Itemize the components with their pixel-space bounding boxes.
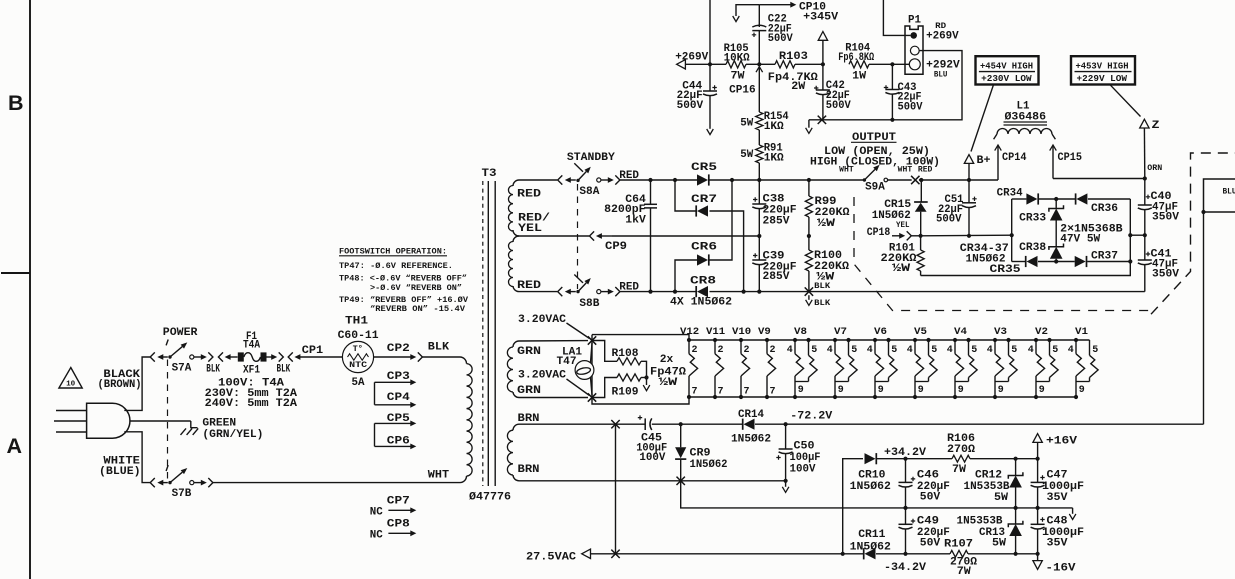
- svg-text:T4A: T4A: [243, 339, 260, 351]
- zener CR13: [1015, 508, 1017, 524]
- callout line box2 to Z: [1110, 85, 1141, 117]
- switch S7B: [150, 478, 155, 487]
- svg-text:-72.2V: -72.2V: [790, 411, 832, 423]
- mid rail to diode box: [921, 234, 1012, 237]
- connector fuse to CP1: [267, 356, 272, 358]
- connector CP4 with bracket: [374, 382, 376, 405]
- capacitor C43: [890, 62, 894, 66]
- svg-text:9: 9: [1079, 385, 1085, 396]
- -16V rail: [1016, 553, 1038, 555]
- junction X WHT RED splice: [911, 176, 919, 184]
- svg-text:NTC: NTC: [349, 360, 367, 370]
- svg-text:1N5Ø62: 1N5Ø62: [731, 434, 771, 446]
- transformer T3 primary winding: [467, 364, 473, 476]
- svg-text:9: 9: [918, 385, 924, 396]
- svg-text:S8B: S8B: [579, 298, 599, 310]
- svg-text:FOOTSWITCH OPERATION:: FOOTSWITCH OPERATION:: [339, 246, 447, 256]
- svg-text:350V: 350V: [1152, 269, 1179, 281]
- svg-text:R103: R103: [779, 51, 808, 63]
- svg-text:(BLUE): (BLUE): [99, 466, 141, 478]
- svg-text:5: 5: [971, 345, 977, 356]
- svg-text:C47: C47: [1047, 469, 1068, 481]
- svg-text:4: 4: [947, 345, 953, 356]
- svg-text:S7A: S7A: [172, 362, 192, 374]
- T3 HV secondary winding upper: [513, 180, 519, 186]
- capacitor C50: [785, 424, 787, 449]
- wire from above into +269V rail: [709, 0, 711, 64]
- wire diode box to C40 C41 node: [1130, 234, 1145, 236]
- svg-text:BRN: BRN: [518, 464, 540, 476]
- wire CP10: [759, 4, 791, 6]
- resistor R100: [808, 236, 810, 250]
- diode CR8 on bottom rail: [651, 291, 698, 293]
- switch S8B standby: [558, 287, 563, 296]
- wire CP15 to ORN node: [1053, 178, 1145, 180]
- svg-text:+345V: +345V: [803, 11, 838, 23]
- svg-text:R107: R107: [944, 539, 973, 551]
- connector S7A to fuse: [194, 356, 201, 358]
- svg-text:+34.2V: +34.2V: [884, 447, 926, 459]
- diode box right edge: [1129, 199, 1131, 262]
- svg-text:CR7: CR7: [691, 194, 717, 206]
- svg-text:C49: C49: [917, 516, 939, 528]
- svg-text:C48: C48: [1047, 516, 1068, 528]
- connector CP9: [590, 231, 595, 240]
- T3 HV secondary winding lower: [513, 236, 519, 242]
- svg-text:T°: T°: [353, 344, 363, 354]
- svg-text:1KΩ: 1KΩ: [764, 152, 784, 164]
- zener CR12: [1015, 459, 1017, 476]
- wire heater bottom tap: [519, 397, 588, 399]
- thermistor TH1: [342, 341, 373, 372]
- node CR5 cathode to rails: [759, 179, 809, 181]
- svg-text:-34.2V: -34.2V: [884, 562, 926, 574]
- voltage box +453V HIGH +229V LOW: [1071, 56, 1135, 84]
- svg-text:BLU: BLU: [1223, 189, 1235, 197]
- wire P1 pin 3: [892, 63, 909, 65]
- wire HV bottom tap: [519, 291, 557, 293]
- tube V2 heater: [1034, 338, 1038, 342]
- junction X heater bottom: [588, 393, 596, 401]
- warning triangle note 10: [59, 368, 82, 389]
- svg-text:CP1: CP1: [302, 345, 324, 357]
- gang dashed line S9A to boundary: [854, 197, 1151, 311]
- zener CR33: [1055, 199, 1057, 209]
- wire plug hot to S7A: [124, 357, 150, 410]
- svg-text:S9A: S9A: [865, 181, 885, 193]
- svg-text:CP3: CP3: [387, 371, 410, 383]
- svg-text:4: 4: [827, 345, 833, 356]
- svg-text:10KΩ: 10KΩ: [724, 53, 750, 65]
- diode CR10: [865, 453, 876, 464]
- svg-text:1N5Ø62: 1N5Ø62: [850, 481, 891, 493]
- svg-text:285V: 285V: [763, 216, 790, 228]
- svg-text:CR10: CR10: [858, 469, 885, 481]
- svg-text:100V: 100V: [639, 452, 665, 464]
- capacitor C22 column: [757, 62, 761, 66]
- svg-text:TH1: TH1: [345, 315, 368, 327]
- svg-text:½W: ½W: [817, 218, 835, 230]
- connector CP2: [410, 354, 416, 360]
- heater top rail: [689, 339, 1090, 341]
- diode box top rail: [1012, 198, 1027, 200]
- capacitor C39: [758, 236, 760, 260]
- P1 pin 2: [910, 46, 919, 55]
- svg-text:CR36: CR36: [1091, 203, 1118, 215]
- bias rail -72.2V: [519, 423, 645, 425]
- svg-text:S8A: S8A: [579, 186, 599, 198]
- svg-text:240V: 5mm T2A: 240V: 5mm T2A: [205, 398, 298, 410]
- plug prong 2: [54, 420, 87, 422]
- svg-text:5A: 5A: [352, 377, 365, 389]
- capacitor C42: [822, 64, 824, 90]
- svg-text:500V: 500V: [936, 214, 962, 226]
- wire rail to CP14: [969, 179, 998, 181]
- resistor R103: [759, 63, 775, 65]
- switch S8A standby: [558, 175, 563, 184]
- svg-text:WHT: WHT: [898, 167, 913, 175]
- diode box bottom rail: [1012, 261, 1027, 263]
- capacitor C38: [757, 178, 761, 182]
- diode CR34: [1026, 193, 1037, 204]
- capacitor C40: [1144, 179, 1146, 206]
- wire S8A to node: [620, 179, 650, 181]
- svg-text:27.5VAC: 27.5VAC: [526, 551, 576, 563]
- svg-text:7: 7: [744, 386, 750, 397]
- svg-text:+269V: +269V: [675, 52, 708, 64]
- svg-text:NC: NC: [370, 507, 383, 519]
- switch S9A: [863, 178, 866, 181]
- svg-text:GREEN: GREEN: [202, 417, 236, 429]
- svg-text:V4: V4: [954, 326, 967, 338]
- svg-text:WHT: WHT: [839, 167, 854, 175]
- svg-text:+16V: +16V: [1046, 435, 1077, 447]
- svg-text:BLU: BLU: [934, 72, 948, 80]
- tube V8 heater: [793, 338, 797, 342]
- svg-text:7W: 7W: [957, 566, 971, 578]
- svg-text:7W: 7W: [731, 71, 745, 83]
- wire TH1 to CP2: [374, 356, 411, 358]
- wire from above to P1 pin 1: [883, 0, 910, 35]
- svg-text:7: 7: [718, 386, 724, 397]
- resistor R91: [756, 145, 763, 163]
- svg-text:5: 5: [931, 345, 937, 356]
- junction X below C42: [818, 116, 826, 124]
- wire HV center tap: [519, 235, 589, 237]
- svg-text:47V 5W: 47V 5W: [1060, 233, 1100, 245]
- resistor R108: [592, 341, 617, 362]
- diode CR11: [843, 553, 863, 555]
- junction X R100 BLK: [805, 287, 813, 295]
- svg-text:A: A: [7, 434, 23, 458]
- svg-text:1N5353B: 1N5353B: [964, 481, 1010, 493]
- svg-text:>-Ø.6V “REVERB ON”: >-Ø.6V “REVERB ON”: [370, 283, 462, 293]
- pilot lamp box: [592, 335, 689, 404]
- svg-text:(GRN/YEL): (GRN/YEL): [202, 429, 263, 441]
- svg-text:50V: 50V: [920, 537, 941, 549]
- svg-text:CP8: CP8: [387, 519, 410, 531]
- svg-text:V2: V2: [1035, 326, 1048, 338]
- T3 core: [482, 181, 484, 486]
- wire CP9 to C38 column: [612, 235, 759, 237]
- svg-text:CR38: CR38: [1019, 242, 1046, 254]
- diode box left edge: [1011, 199, 1013, 262]
- svg-text:500V: 500V: [898, 102, 923, 114]
- svg-text:STANDBY: STANDBY: [567, 152, 615, 164]
- capacitor C64: [650, 180, 652, 204]
- svg-text:CP14: CP14: [1002, 152, 1027, 164]
- capacitor C48: [1037, 508, 1039, 524]
- svg-text:9: 9: [958, 385, 964, 396]
- wire BLK off-page arrow: [808, 295, 810, 300]
- svg-text:V3: V3: [994, 326, 1007, 338]
- svg-text:+454V HIGH: +454V HIGH: [980, 61, 1033, 71]
- svg-text:C50: C50: [794, 440, 815, 452]
- wire C45 to CR14: [681, 423, 742, 425]
- svg-text:BLK: BLK: [814, 300, 830, 308]
- svg-text:5: 5: [851, 345, 857, 356]
- wire plug neutral to S7B: [124, 432, 150, 483]
- svg-text:4: 4: [867, 345, 873, 356]
- svg-text:5: 5: [1092, 345, 1098, 356]
- svg-text:7: 7: [770, 386, 776, 397]
- capacitor C45: [644, 418, 646, 430]
- svg-text:4X 1N5Ø62: 4X 1N5Ø62: [670, 297, 732, 309]
- svg-text:2: 2: [744, 345, 750, 356]
- tube V11 heater: [713, 338, 717, 342]
- svg-text:CP9: CP9: [605, 241, 627, 253]
- svg-text:285V: 285V: [763, 271, 790, 283]
- svg-text:V7: V7: [834, 326, 847, 338]
- svg-text:GRN: GRN: [517, 385, 541, 397]
- svg-text:CR6: CR6: [691, 242, 717, 254]
- svg-text:V10: V10: [732, 326, 751, 338]
- svg-text:C46: C46: [917, 470, 939, 482]
- svg-text:CP18: CP18: [867, 227, 891, 239]
- svg-text:BLK: BLK: [206, 363, 220, 375]
- svg-text:4: 4: [907, 345, 913, 356]
- svg-text:1KΩ: 1KΩ: [764, 121, 784, 133]
- svg-text:CP2: CP2: [387, 343, 410, 355]
- svg-text:R109: R109: [612, 386, 639, 398]
- svg-text:RED: RED: [517, 189, 541, 201]
- wire stub with down arrow at C22 top: [736, 5, 759, 16]
- heater bottom rail: [689, 396, 1076, 398]
- capacitor C47: [1037, 459, 1039, 483]
- svg-text:-16V: -16V: [1046, 562, 1076, 574]
- svg-text:+453V HIGH: +453V HIGH: [1076, 61, 1129, 71]
- svg-text:2: 2: [692, 345, 698, 356]
- svg-text:+269V: +269V: [926, 31, 959, 43]
- arrow end of zero rail: [1072, 508, 1074, 514]
- svg-text:4: 4: [987, 345, 993, 356]
- triangle +16V: [1033, 434, 1042, 443]
- svg-text:½W: ½W: [816, 272, 834, 284]
- svg-text:YEL: YEL: [518, 223, 542, 235]
- zero volt rail: [906, 507, 1073, 509]
- svg-text:1000µF: 1000µF: [1042, 481, 1084, 493]
- svg-text:RED: RED: [918, 167, 933, 175]
- svg-text:5W: 5W: [992, 537, 1006, 549]
- plug prong 1: [56, 410, 87, 412]
- diode CR14: [744, 419, 755, 430]
- wire CR9 to zero-volt rail: [681, 481, 906, 508]
- svg-text:100V: 100V: [790, 463, 816, 475]
- svg-text:5W: 5W: [994, 492, 1008, 504]
- svg-text:BLK: BLK: [814, 283, 830, 291]
- svg-text:2: 2: [718, 345, 724, 356]
- svg-text:WHT: WHT: [428, 469, 449, 481]
- +16V rail dots: [1014, 457, 1018, 461]
- svg-text:3.20VAC: 3.20VAC: [518, 370, 566, 382]
- svg-text:V6: V6: [874, 326, 887, 338]
- bias winding bottom rail: [519, 480, 786, 482]
- diode CR37: [1056, 261, 1075, 263]
- svg-text:5: 5: [1052, 345, 1058, 356]
- svg-text:T3: T3: [482, 168, 497, 180]
- svg-text:½W: ½W: [659, 377, 678, 389]
- T3 bias winding BRN: [513, 424, 519, 430]
- svg-text:35V: 35V: [1047, 492, 1068, 504]
- diode CR35: [1027, 256, 1038, 267]
- svg-text:9: 9: [1039, 385, 1045, 396]
- chassis ground symbol: [181, 421, 199, 435]
- svg-text:V12: V12: [680, 326, 699, 338]
- svg-text:350V: 350V: [1152, 212, 1179, 224]
- svg-text:5: 5: [891, 345, 897, 356]
- wire heater top tap: [519, 340, 588, 342]
- diode CR9: [680, 424, 682, 447]
- svg-text:7: 7: [692, 386, 698, 397]
- svg-text:+230V LOW: +230V LOW: [981, 74, 1032, 84]
- svg-text:CP15: CP15: [1058, 152, 1083, 164]
- svg-text:XF1: XF1: [243, 364, 260, 376]
- wire C42/C43 common with down arrow: [809, 119, 893, 121]
- svg-text:2x: 2x: [660, 354, 674, 366]
- tube V4 heater: [953, 338, 957, 342]
- wire BLU box down to -72V rail: [1203, 212, 1205, 424]
- svg-text:V8: V8: [794, 326, 807, 338]
- svg-text:P1: P1: [908, 14, 921, 26]
- section boundary dashed right: [1151, 153, 1235, 314]
- svg-text:1N5353B: 1N5353B: [957, 516, 1003, 528]
- svg-text:BRN: BRN: [518, 413, 540, 425]
- svg-text:+229V LOW: +229V LOW: [1077, 74, 1128, 84]
- svg-text:TP47: -Ø.6V REFERENCE.: TP47: -Ø.6V REFERENCE.: [339, 261, 453, 271]
- arrow CP14: [995, 145, 1002, 151]
- arrow CP16: [756, 67, 763, 73]
- callout line box1 to B+: [971, 85, 994, 152]
- wire HV top tap: [519, 179, 557, 181]
- svg-text:270Ω: 270Ω: [947, 444, 975, 456]
- svg-text:CR5: CR5: [691, 162, 717, 174]
- resistor R107: [906, 553, 951, 555]
- junction X heater top: [588, 336, 596, 344]
- svg-text:(BROWN): (BROWN): [98, 379, 142, 391]
- junction X 27.5VAC: [611, 550, 619, 558]
- svg-text:1N5Ø62: 1N5Ø62: [690, 459, 728, 471]
- svg-text:9: 9: [838, 385, 844, 396]
- svg-text:1kV: 1kV: [625, 214, 646, 226]
- svg-text:CP16: CP16: [729, 85, 756, 97]
- T3 heater winding: [513, 341, 519, 347]
- svg-text:5: 5: [1011, 345, 1017, 356]
- svg-text:V9: V9: [758, 326, 771, 338]
- tube V7 heater: [833, 338, 837, 342]
- wire S8B to node: [620, 291, 650, 293]
- triangle Z: [1140, 119, 1149, 128]
- wire up to CR10: [843, 459, 863, 554]
- svg-text:2: 2: [770, 345, 776, 356]
- wire plug earth GREEN: [130, 420, 191, 422]
- svg-text:Ø47776: Ø47776: [469, 492, 511, 504]
- diode CR7 branch: [673, 178, 677, 182]
- svg-text:1N5Ø62: 1N5Ø62: [850, 541, 891, 553]
- svg-text:1N5Ø62: 1N5Ø62: [872, 210, 911, 222]
- svg-text:POWER: POWER: [163, 327, 198, 339]
- svg-text:3.20VAC: 3.20VAC: [518, 314, 566, 326]
- svg-text:9: 9: [798, 385, 804, 396]
- svg-text:100µF: 100µF: [790, 452, 821, 464]
- arrow CP15: [1050, 145, 1057, 151]
- arrow +269V: [677, 60, 686, 69]
- P1 pin 3: [909, 59, 920, 70]
- zone tick B/A divider: [1, 272, 30, 274]
- connector P1: [905, 26, 923, 74]
- svg-text:CP7: CP7: [387, 496, 410, 508]
- svg-text:7W: 7W: [952, 464, 966, 476]
- svg-text:9: 9: [878, 385, 884, 396]
- tube V9 heater: [765, 338, 769, 342]
- svg-text:500V: 500V: [826, 100, 851, 112]
- svg-text:NC: NC: [370, 530, 383, 542]
- tube V3 heater: [993, 338, 997, 342]
- capacitor C46: [905, 459, 907, 483]
- svg-text:BLK: BLK: [277, 363, 291, 375]
- svg-text:10: 10: [66, 381, 76, 389]
- svg-text:V11: V11: [706, 326, 725, 338]
- capacitor C44: [709, 64, 711, 91]
- resistor R99: [807, 178, 811, 182]
- diode CR36: [1056, 198, 1076, 200]
- callout line lower 3.20VAC: [567, 379, 590, 396]
- capacitor C49: [905, 508, 907, 524]
- svg-text:4: 4: [787, 345, 793, 356]
- bottom HV rail to C41: [744, 291, 1145, 293]
- tube V12 heater: [687, 338, 691, 342]
- svg-text:CR12: CR12: [975, 469, 1002, 481]
- capacitor C51: [967, 178, 971, 182]
- AC plug: [87, 403, 130, 438]
- svg-text:V1: V1: [1075, 326, 1088, 338]
- wire 27.5VAC to CR10 CR11: [616, 553, 843, 555]
- capacitor C41: [1144, 235, 1146, 260]
- svg-text:Z: Z: [1152, 120, 1160, 132]
- svg-text:9: 9: [998, 385, 1004, 396]
- svg-text:“REVERB ON” -15.4V: “REVERB ON” -15.4V: [370, 304, 466, 314]
- resistor R109: [592, 378, 617, 398]
- plug prong 3: [56, 431, 87, 433]
- svg-text:ORN: ORN: [1147, 165, 1162, 173]
- svg-text:T47: T47: [557, 356, 577, 368]
- fuse F1 XF1: [238, 352, 244, 361]
- junction X CR9 bottom: [677, 477, 685, 485]
- svg-text:500V: 500V: [768, 33, 793, 45]
- next-stage connector box BLU: [1204, 179, 1235, 212]
- svg-text:CR33: CR33: [1019, 213, 1046, 225]
- svg-text:RED: RED: [517, 280, 541, 292]
- wire CP2 to T3 primary: [423, 357, 467, 364]
